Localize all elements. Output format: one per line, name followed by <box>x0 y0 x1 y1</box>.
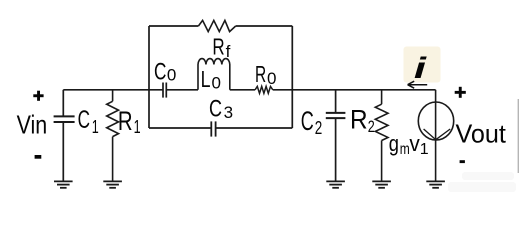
current arrow i (points left, above wire) <box>408 81 428 88</box>
label gm v1 <box>389 131 429 158</box>
svg-text:2: 2 <box>368 117 375 136</box>
label L0 <box>201 66 221 93</box>
svg-text:L: L <box>201 66 211 92</box>
svg-text:Vout: Vout <box>456 118 507 148</box>
capacitor C0 plates (series, on main wire) <box>163 83 166 98</box>
svg-text:0: 0 <box>167 66 176 85</box>
resistor R0 zigzag (series on main wire) <box>255 86 273 93</box>
faint watermark smudge bottom right <box>448 172 516 192</box>
label Vin <box>17 110 48 140</box>
svg-text:g: g <box>389 131 399 156</box>
label C1 <box>78 106 99 137</box>
svg-text:3: 3 <box>224 103 233 122</box>
capacitor C3 plates <box>211 121 215 136</box>
svg-text:Vin: Vin <box>17 110 48 140</box>
resistor R1 (shunt at input) <box>107 90 119 182</box>
wire: main horizontal net from Vin node to current source <box>63 89 435 91</box>
svg-text:C: C <box>78 106 90 134</box>
svg-text:C: C <box>301 106 314 136</box>
plus terminal (Vout) <box>455 87 466 98</box>
svg-text:2: 2 <box>315 118 323 138</box>
node B vertical wire (right side of feedback network, x=292) <box>291 26 293 128</box>
svg-text:v: v <box>409 131 419 156</box>
decorative faint vertical line at right edge <box>517 99 519 173</box>
svg-text:C: C <box>154 58 166 85</box>
label R0 <box>255 61 276 88</box>
label Vout <box>456 118 507 148</box>
resistor R2 (shunt at output) <box>375 90 388 182</box>
wire: bottom feedback branch to capacitor C3 <box>149 127 292 129</box>
svg-text:R: R <box>350 104 368 134</box>
minus terminal (Vin) <box>35 155 42 159</box>
svg-text:i: i <box>414 51 428 85</box>
label i (italic serif, navy) <box>414 51 428 85</box>
svg-text:0: 0 <box>267 69 276 88</box>
minus terminal (Vout) <box>460 160 465 163</box>
inductor L0 (raised loop style, series on main wire) <box>198 59 230 90</box>
svg-text:R: R <box>118 106 133 136</box>
ground (C2 branch) <box>326 181 345 187</box>
label R1 <box>118 106 141 137</box>
svg-text:R: R <box>255 61 266 87</box>
wire: top feedback branch to resistor Rf <box>149 25 292 27</box>
ground (R2 branch) <box>372 181 391 187</box>
capacitor C1 (shunt at input) <box>54 90 75 182</box>
node A vertical wire (left side of feedback network, x=149) <box>148 26 150 128</box>
ground (current source branch) <box>426 181 445 187</box>
capacitor C2 (shunt at output) <box>326 90 346 182</box>
svg-text:C: C <box>209 96 222 123</box>
svg-text:1: 1 <box>134 117 141 137</box>
svg-text:1: 1 <box>420 141 429 158</box>
svg-text:0: 0 <box>212 74 221 93</box>
controlled current source gm*v1 <box>418 90 453 182</box>
ground (C1 branch) <box>54 181 73 187</box>
label C3 <box>209 96 233 123</box>
label C2 <box>301 106 323 138</box>
svg-text:R: R <box>212 33 224 59</box>
label Rf <box>212 33 230 61</box>
highlight patch behind current label i <box>404 47 441 83</box>
ground (R1 branch) <box>103 181 122 187</box>
svg-text:m: m <box>400 141 410 158</box>
svg-text:1: 1 <box>92 117 99 137</box>
plus terminal (Vin) <box>33 91 43 101</box>
label R2 <box>350 104 375 135</box>
label C0 <box>154 58 176 85</box>
resistor Rf zigzag <box>198 20 235 31</box>
